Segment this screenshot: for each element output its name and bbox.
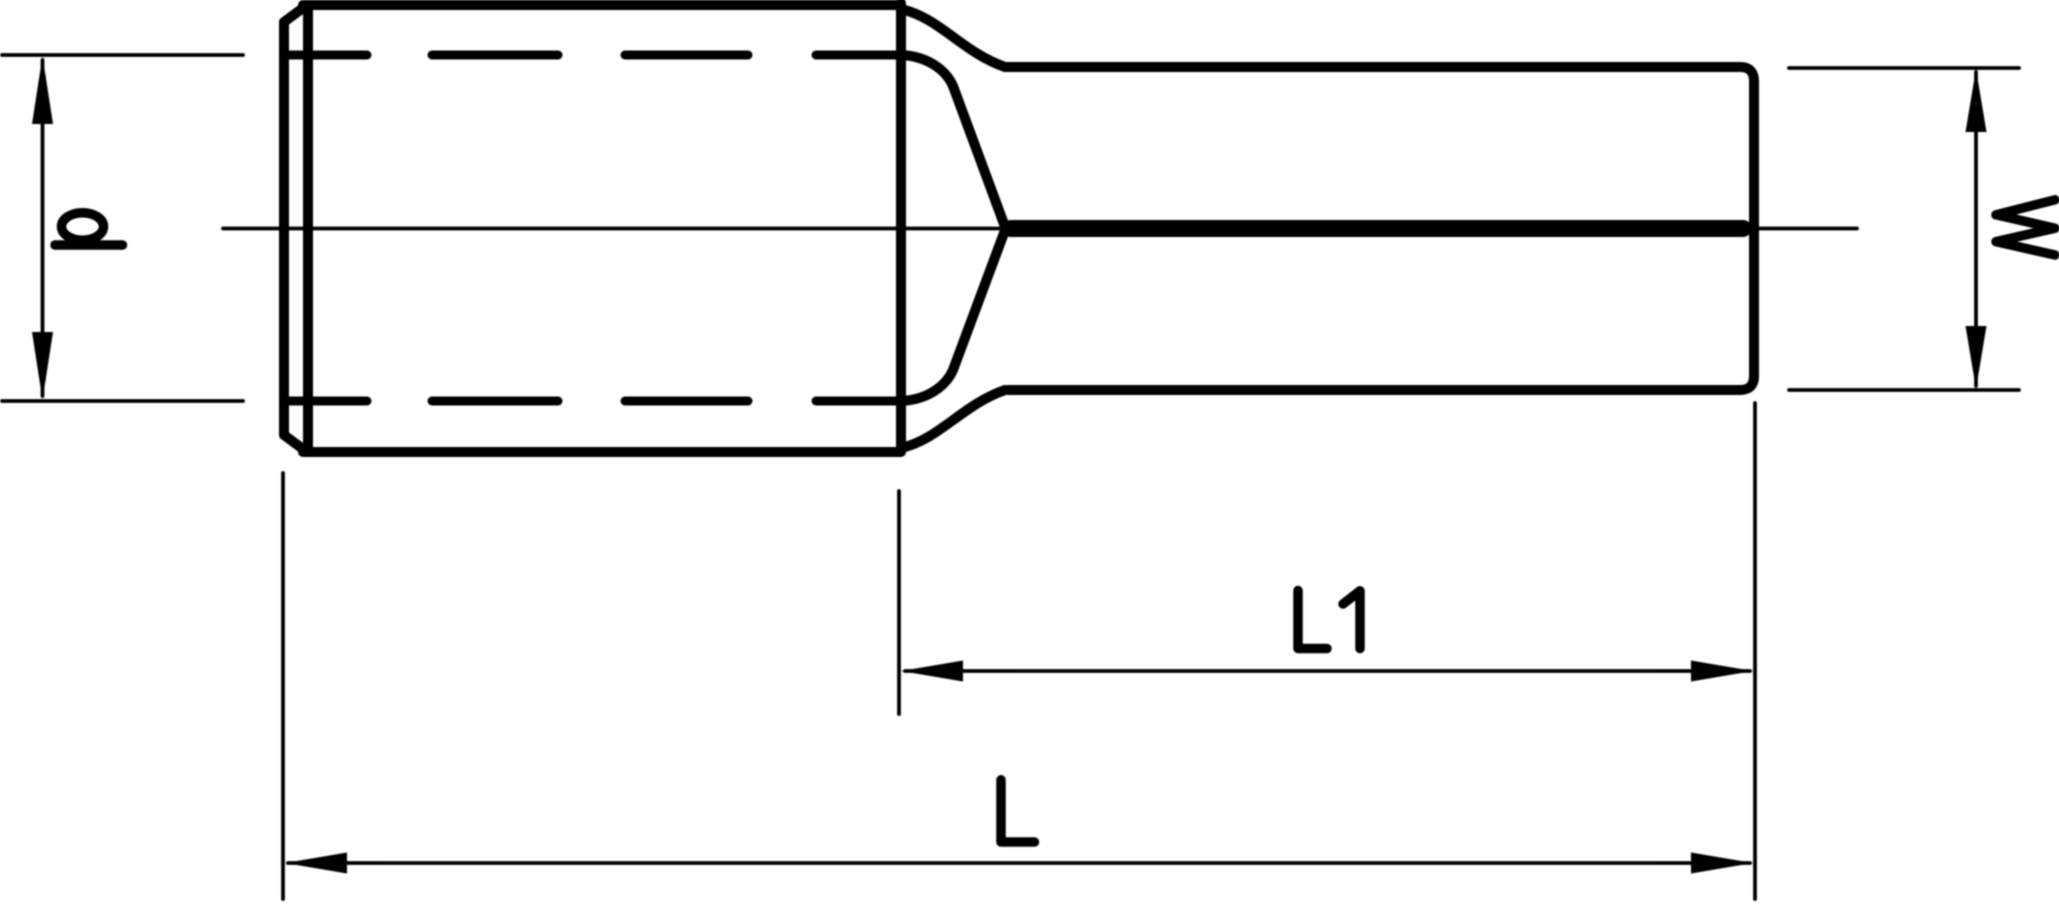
hidden line bottom (inner bore, dashed) — [290, 397, 897, 406]
dimension d: arrowhead down — [32, 332, 53, 400]
hidden line top (inner bore, dashed) — [290, 51, 897, 60]
pin center seam (thick crimped slot line) — [1011, 220, 1743, 237]
dimension d: extension line top — [2, 53, 243, 57]
dimension L1: arrowhead left — [901, 661, 963, 682]
dimension L1/L: extension line right — [1753, 403, 1757, 899]
label W (rotated CAD glyph zigzag) — [1996, 200, 2055, 255]
dimension d: arrow line — [41, 60, 45, 396]
dimension L: arrowhead left — [285, 853, 347, 874]
dimension d: arrowhead up — [32, 56, 53, 124]
label d (rotated CAD glyph: bar + bowl) — [55, 240, 123, 250]
dimension L1: dimension line — [905, 669, 1750, 673]
centerline (thin axis line) — [223, 227, 1857, 231]
dimension L1: arrowhead right — [1691, 661, 1753, 682]
pin outline (crimp barrel tube) — [1005, 67, 1754, 390]
ferrule body left cap (chamfered entry) — [284, 5, 308, 452]
transition outer bottom — [901, 390, 1005, 448]
ferrule body outline (large sleeve cylinder) — [303, 3, 901, 452]
dimension W: arrowhead up — [1966, 69, 1987, 132]
transition outer top (body to pin) — [901, 9, 1005, 67]
dimension L1: extension line left — [897, 491, 901, 714]
label L (CAD glyph) — [1001, 780, 1035, 842]
transition inner cone top — [901, 55, 1004, 224]
dimension W: arrow line — [1974, 72, 1978, 386]
dimension L: arrowhead right — [1691, 853, 1753, 874]
dimension W: extension line bottom — [1789, 388, 2019, 392]
dimension L: extension line left — [281, 473, 285, 899]
dimension d: extension line bottom — [2, 399, 243, 403]
label L1 (CAD glyphs) — [1298, 591, 1360, 649]
dimension L: dimension line — [288, 861, 1750, 865]
dimension W: extension line top — [1789, 66, 2019, 70]
dimension W: arrowhead down — [1966, 326, 1987, 389]
transition inner cone bottom — [901, 233, 1004, 401]
